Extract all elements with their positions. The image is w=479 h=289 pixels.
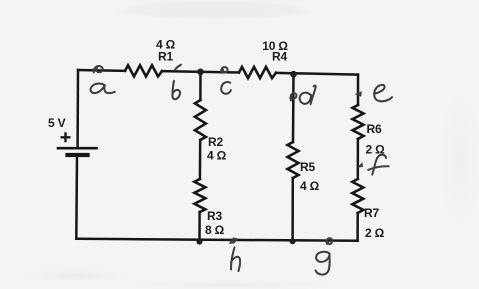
node e handwritten letter [374, 85, 392, 102]
wire between R2 and R3 [199, 140, 202, 179]
node c loop mark on wire [221, 67, 227, 73]
resistor R1 [125, 65, 162, 76]
resistor R6 [353, 105, 364, 139]
node g loop mark on wire [327, 238, 333, 244]
wire R7 to bottom-right corner [356, 213, 359, 241]
node b junction dot [197, 69, 204, 76]
node b tick mark on wire [175, 65, 181, 70]
node d loop mark on wire [290, 93, 296, 100]
node h handwritten letter [231, 248, 240, 272]
svg-text:R5: R5 [300, 160, 315, 174]
wire right vertical top (corner to R6) [357, 75, 360, 105]
bottom junction dot at R5 [290, 238, 296, 244]
svg-text:R1: R1 [158, 49, 173, 63]
wire bottom [76, 239, 357, 241]
svg-text:2 Ω: 2 Ω [365, 226, 385, 240]
node h arrowhead mark on wire [229, 237, 239, 243]
wire node d down to R5 [292, 74, 295, 142]
node a handwritten letter [91, 84, 115, 94]
svg-text:R4: R4 [272, 50, 287, 64]
svg-text:R3: R3 [207, 209, 222, 223]
svg-text:4 Ω: 4 Ω [207, 149, 227, 163]
resistor R4 [239, 67, 276, 78]
wire R3 to bottom node h [198, 212, 201, 242]
battery V1 positive plate [58, 147, 97, 150]
battery plus sign [61, 132, 71, 142]
node c handwritten letter [221, 82, 231, 94]
wire top-left segment (a to R1) [78, 69, 125, 72]
wire R5 to bottom node g [291, 178, 294, 241]
resistor R7 [352, 179, 363, 213]
resistor R3 [194, 179, 205, 212]
svg-text:R6: R6 [367, 122, 382, 136]
wire R4 to top-right corner [276, 73, 358, 75]
svg-text:R2: R2 [208, 135, 223, 149]
resistor R5 [288, 142, 299, 178]
wire between R6 and R7 [357, 139, 360, 179]
wire left vertical below battery [75, 157, 78, 239]
svg-text:R7: R7 [364, 206, 379, 220]
node e arrowhead mark on wire [355, 91, 363, 96]
node d junction dot [290, 71, 297, 78]
wire left vertical above battery [76, 70, 79, 147]
svg-text:8 Ω: 8 Ω [205, 223, 225, 237]
node d handwritten letter [300, 86, 316, 104]
svg-text:5 V: 5 V [48, 116, 66, 130]
battery V1 negative plate [68, 153, 88, 157]
node b handwritten letter [172, 81, 180, 99]
svg-text:4 Ω: 4 Ω [300, 179, 320, 193]
bottom junction dot at R3 [197, 239, 203, 245]
wire R1 to node b to R4 [162, 71, 239, 72]
resistor R2 [195, 100, 206, 140]
wire node b down to R2 [199, 72, 202, 100]
node f arrowhead mark on wire [357, 162, 363, 168]
node g handwritten letter [316, 252, 330, 275]
node a handwritten loop mark on wire [94, 66, 103, 73]
node f handwritten letter [368, 155, 388, 175]
